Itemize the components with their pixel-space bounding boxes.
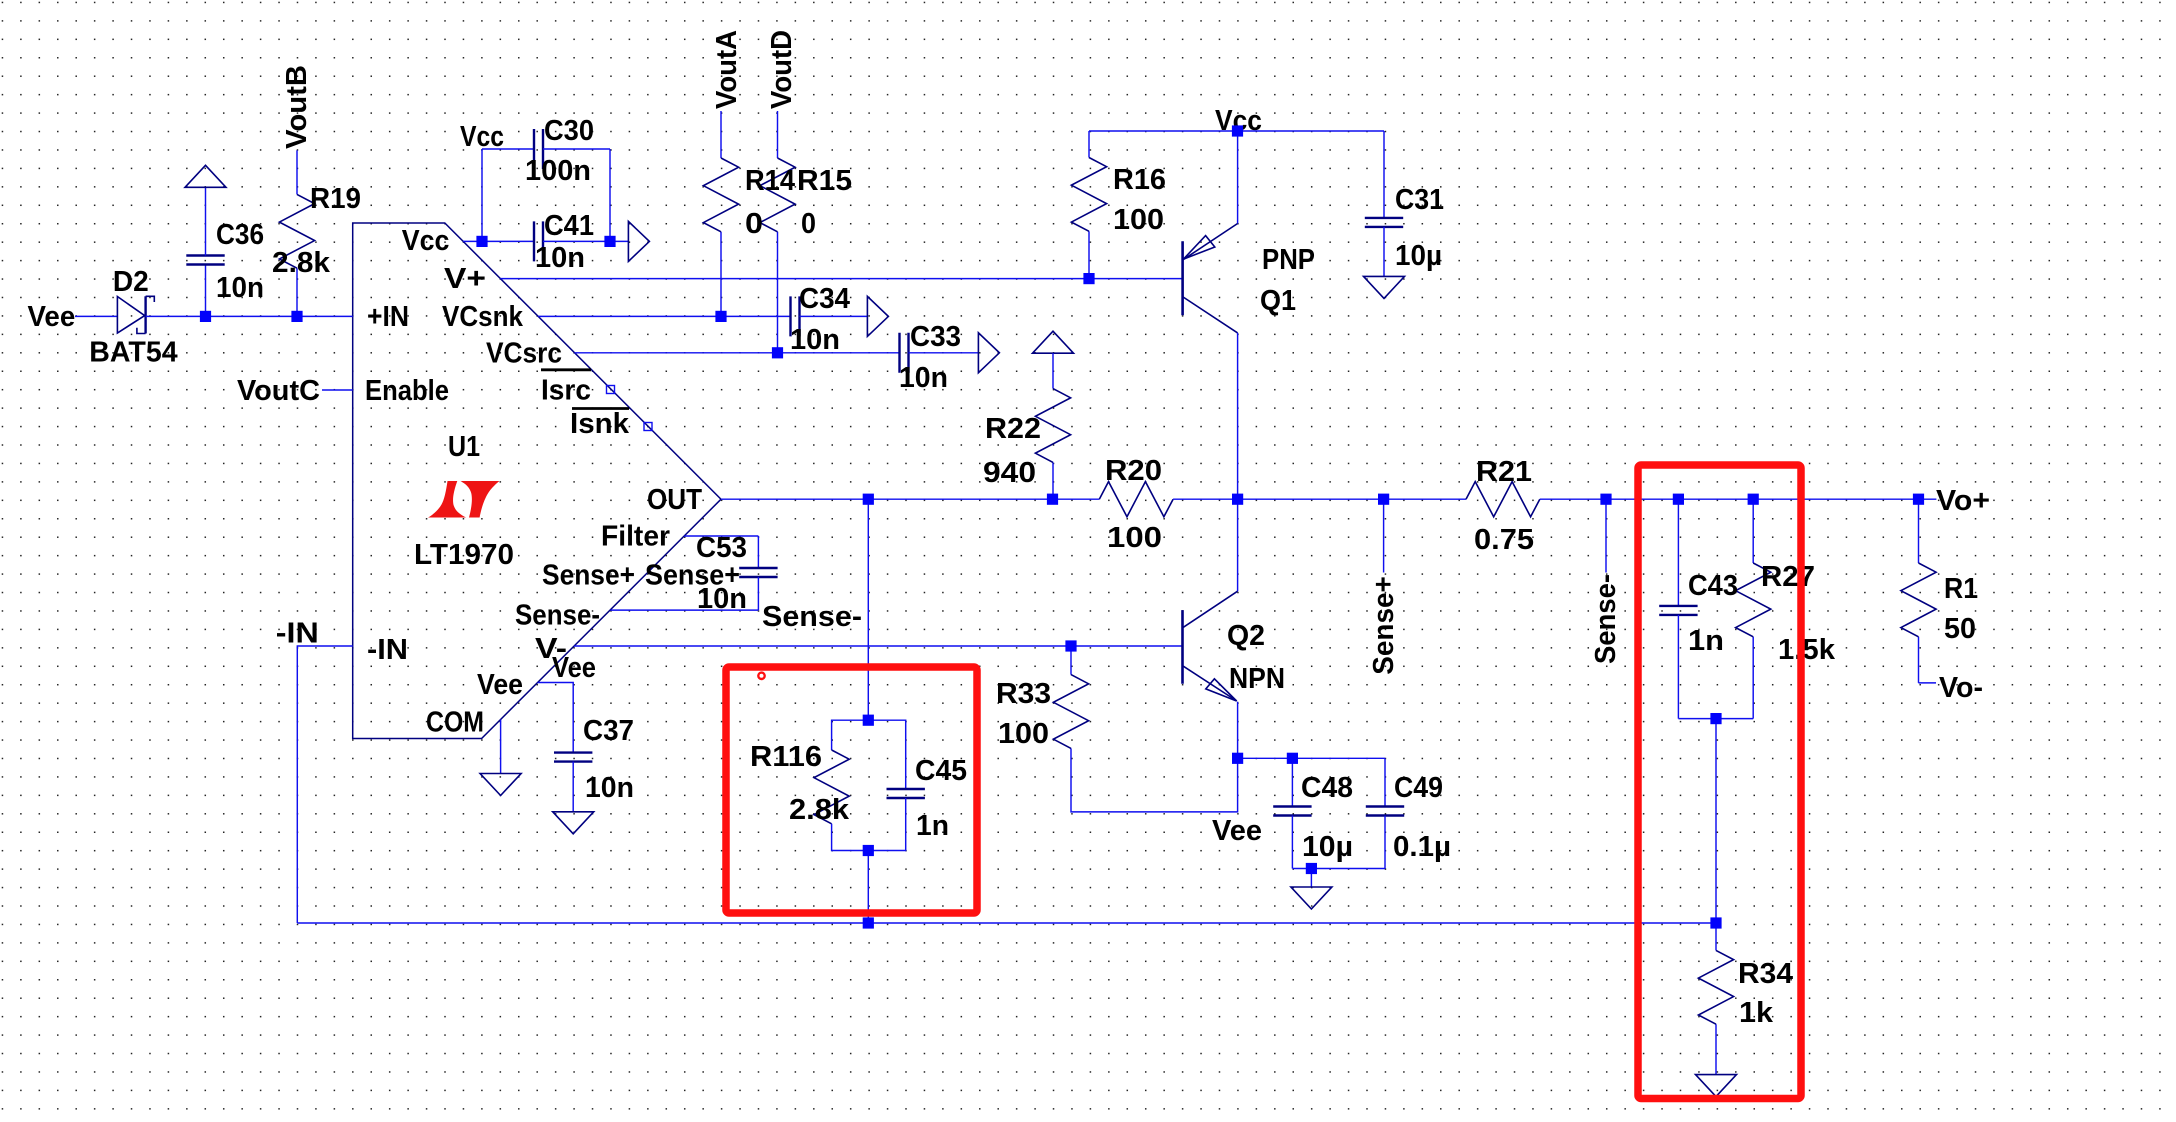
power arrow above R22 <box>1033 331 1074 353</box>
resistor R14 <box>703 158 738 232</box>
svg-text:Vee: Vee <box>1212 815 1262 847</box>
wire VoutC to Enable <box>322 389 353 391</box>
svg-text:Q1: Q1 <box>1260 285 1296 317</box>
output arrow after C33 <box>978 333 999 373</box>
svg-text:940: 940 <box>983 457 1036 489</box>
wire block to bottom rail <box>867 851 869 924</box>
svg-text:-IN: -IN <box>367 634 408 666</box>
wire arrow to R22 <box>1052 353 1054 388</box>
junction R14/VCsnk <box>715 311 726 322</box>
svg-text:R116: R116 <box>750 741 822 773</box>
wire OUT bus left <box>721 498 1099 500</box>
wire C49 bottom stem <box>1384 816 1386 869</box>
wire Q2 emitter down <box>1237 702 1239 759</box>
svg-text:LT1970: LT1970 <box>414 539 514 571</box>
power arrow above C36 <box>185 165 226 187</box>
resistor R34 <box>1698 950 1733 1024</box>
svg-text:C30: C30 <box>544 115 594 147</box>
svg-text:R27: R27 <box>1761 561 1815 593</box>
wire COM pin <box>500 720 502 774</box>
wire C31 top stem <box>1383 131 1385 218</box>
svg-text:R20: R20 <box>1105 455 1162 487</box>
svg-text:C49: C49 <box>1394 772 1443 804</box>
wire Sense+ takeoff <box>1383 499 1385 572</box>
pin Isnk unconnected square <box>644 423 652 431</box>
diode D2 BAT54 <box>117 297 144 334</box>
wire Vee pin to C37 <box>538 683 574 753</box>
svg-text:Vo+: Vo+ <box>1936 485 1990 517</box>
svg-text:10n: 10n <box>585 772 634 804</box>
svg-text:1k: 1k <box>1739 997 1774 1029</box>
svg-text:R1: R1 <box>1944 573 1978 605</box>
wire C41 to output arrow <box>543 240 628 242</box>
red marker dot <box>758 673 764 679</box>
svg-text:U1: U1 <box>448 431 480 463</box>
svg-text:R34: R34 <box>1738 958 1793 990</box>
wire Sense- pin row <box>610 609 758 611</box>
svg-text:R22: R22 <box>985 413 1041 445</box>
LT logo <box>428 481 466 518</box>
pin Isrc unconnected square <box>607 386 615 394</box>
svg-text:0.1µ: 0.1µ <box>1393 831 1451 863</box>
svg-text:100: 100 <box>1107 522 1162 554</box>
svg-text:Isnk: Isnk <box>570 408 630 440</box>
junction Sense+/OUT <box>1378 494 1389 505</box>
resistor R20 <box>1099 482 1173 517</box>
svg-text:VCsnk: VCsnk <box>442 301 524 333</box>
wire V- row to R33 <box>1070 646 1072 675</box>
output arrow after C41 <box>628 221 649 261</box>
wire R34 to ground <box>1715 1024 1717 1074</box>
svg-text:10µ: 10µ <box>1302 831 1353 863</box>
svg-text:Enable: Enable <box>365 375 449 407</box>
svg-text:+IN: +IN <box>367 301 409 333</box>
svg-text:2.8k: 2.8k <box>272 247 331 279</box>
wire R116 top lead <box>832 720 869 750</box>
wire R19 to +IN node <box>296 268 298 316</box>
red highlight box around R116/C45 <box>726 667 977 913</box>
junction R19/+IN <box>291 311 302 322</box>
wire C30 left lead <box>482 148 534 150</box>
svg-text:Vo-: Vo- <box>1939 672 1983 704</box>
junction C43-R27/R34 <box>1710 713 1721 724</box>
svg-text:0: 0 <box>801 208 816 240</box>
capacitor C53 <box>739 568 777 577</box>
ground below C48/C49 <box>1291 887 1332 909</box>
wire R116 bottom lead <box>832 824 869 851</box>
svg-text:Sense-: Sense- <box>515 600 600 632</box>
svg-text:C37: C37 <box>583 715 634 747</box>
svg-text:100: 100 <box>1113 204 1164 236</box>
capacitor C43 <box>1659 606 1697 615</box>
wire R14 to VCsnk <box>720 232 722 317</box>
wire Vcc rail to R16 <box>1088 131 1090 158</box>
wire C37 bottom stem <box>572 762 574 812</box>
wire OUT bus to R27 <box>1752 499 1754 563</box>
wire Sense- takeoff <box>1605 499 1607 572</box>
svg-text:R19: R19 <box>310 183 361 215</box>
wire C31 bottom stem <box>1383 227 1385 277</box>
wire C43/R27 bottom join <box>1678 718 1753 720</box>
svg-text:10n: 10n <box>790 324 840 356</box>
svg-text:COM: COM <box>426 707 484 739</box>
junction Q1-Q2/OUT <box>1232 494 1243 505</box>
wire rail to R34 <box>1715 923 1717 950</box>
svg-text:C48: C48 <box>1301 772 1353 804</box>
svg-text:VoutA: VoutA <box>711 30 743 109</box>
wire C34 to arrow <box>800 315 868 317</box>
wire Vcc pin to C41 <box>463 240 534 242</box>
ground below C31 <box>1364 276 1405 298</box>
resistor R22 <box>1035 389 1070 463</box>
svg-text:1.5k: 1.5k <box>1778 634 1836 666</box>
junction C36/+IN <box>200 311 211 322</box>
wire R1 to Vo- <box>1918 637 1920 683</box>
Isnk overline <box>572 407 629 410</box>
wire up to C30 left <box>481 149 483 241</box>
wire C43 top stem <box>1677 499 1679 606</box>
capacitor C34 <box>791 296 800 336</box>
resistor R16 <box>1071 158 1106 232</box>
wire Q2 emitter to C48/C49 <box>1238 757 1385 759</box>
junction C48 top <box>1287 753 1298 764</box>
resistor R19 <box>279 194 314 268</box>
svg-text:50: 50 <box>1944 613 1976 645</box>
capacitor C41 <box>534 221 543 261</box>
svg-text:0.75: 0.75 <box>1474 524 1534 556</box>
capacitor C48 <box>1273 807 1311 816</box>
wire C53 bottom stem <box>757 577 759 610</box>
svg-text:C45: C45 <box>915 755 967 787</box>
svg-text:VoutD: VoutD <box>766 30 798 109</box>
svg-text:C34: C34 <box>799 283 850 315</box>
resistor R33 <box>1053 675 1088 749</box>
junction Vcc/C30 <box>476 236 487 247</box>
wire V- row to Q2 base <box>574 645 1182 647</box>
capacitor C31 <box>1365 218 1403 227</box>
junction R16/V+ <box>1083 273 1094 284</box>
wire C36 bottom stem <box>205 265 207 317</box>
wire C48/C49 bottom join <box>1292 868 1385 870</box>
svg-text:Sense+: Sense+ <box>645 559 740 591</box>
svg-text:2.8k: 2.8k <box>789 794 850 826</box>
svg-text:0: 0 <box>745 208 763 240</box>
wire R15 to VCsrc <box>777 232 779 353</box>
wire Q1 collector / Q2 collector <box>1237 333 1239 591</box>
svg-text:10n: 10n <box>899 362 948 394</box>
wire R33 to Vee node <box>1071 748 1238 812</box>
svg-text:-IN: -IN <box>276 618 319 650</box>
wire VoutB to R19 <box>296 150 298 194</box>
svg-text:Vcc: Vcc <box>402 225 450 257</box>
junction OUT/R116 branch <box>863 494 874 505</box>
resistor R1 <box>1901 563 1936 637</box>
svg-text:100n: 100n <box>525 155 591 187</box>
wire to Vo- label <box>1919 682 1937 684</box>
wire VoutA to R14 <box>720 111 722 158</box>
svg-text:VCsrc: VCsrc <box>486 338 562 370</box>
junction R116/C45 bottom <box>863 845 874 856</box>
wire Q1 emitter to Vcc rail <box>1237 131 1239 224</box>
svg-text:C36: C36 <box>216 219 264 251</box>
svg-text:10µ: 10µ <box>1395 240 1442 272</box>
wire C48 top stem <box>1291 758 1293 806</box>
svg-text:NPN: NPN <box>1229 663 1285 695</box>
resistor R27 <box>1736 563 1771 637</box>
svg-text:10n: 10n <box>535 242 585 274</box>
svg-text:C43: C43 <box>1688 570 1738 602</box>
svg-text:1n: 1n <box>1688 625 1724 657</box>
svg-text:100: 100 <box>998 718 1049 750</box>
capacitor C36 <box>186 256 224 265</box>
junction R33/V- <box>1065 640 1076 651</box>
junction Q2 emitter <box>1232 753 1243 764</box>
svg-text:C33: C33 <box>910 321 961 353</box>
junction R27/OUT <box>1748 494 1759 505</box>
wire OUT bus right to Vo+ <box>1540 498 1937 500</box>
wire C30 right lead <box>543 148 610 150</box>
wire VCsnk row to C34 <box>538 315 790 317</box>
wire Vo+ to R1 <box>1918 499 1920 563</box>
wire Vcc rail <box>1089 130 1384 132</box>
wire C45 top lead <box>868 720 905 789</box>
wire R22 to OUT bus <box>1052 462 1054 499</box>
wire D2 cathode to +IN <box>146 315 353 317</box>
svg-text:VoutC: VoutC <box>237 375 320 407</box>
svg-text:R16: R16 <box>1113 164 1166 196</box>
capacitor C33 <box>900 333 909 373</box>
svg-text:OUT: OUT <box>647 484 702 516</box>
svg-text:R14: R14 <box>745 165 795 197</box>
svg-text:C41: C41 <box>544 210 594 242</box>
wire bottom feedback rail <box>297 922 1716 924</box>
junction bottom rail/R34 <box>1710 917 1721 928</box>
wire ground stem <box>1310 869 1312 888</box>
svg-text:Sense+: Sense+ <box>1368 576 1400 675</box>
svg-text:Filter: Filter <box>601 521 670 553</box>
svg-text:1n: 1n <box>916 810 949 842</box>
junction C41/C30 <box>604 236 615 247</box>
op-amp U1 LT1970 body <box>353 223 721 739</box>
svg-text:10n: 10n <box>216 272 264 304</box>
Isrc overline <box>541 368 591 371</box>
wire -IN down <box>297 646 352 923</box>
svg-text:R15: R15 <box>797 165 852 197</box>
junction bottom rail/R116 <box>863 917 874 928</box>
ground below COM <box>480 774 521 796</box>
svg-text:Q2: Q2 <box>1227 620 1265 652</box>
output arrow after C34 <box>867 296 888 336</box>
transistor Q2 NPN <box>1181 610 1184 684</box>
wire C45 bottom lead <box>868 798 905 851</box>
junction Sense-/OUT <box>1600 494 1611 505</box>
junction Vcc rail <box>1232 125 1243 136</box>
wire VoutD to R15 <box>777 111 779 158</box>
junction C43/OUT <box>1673 494 1684 505</box>
svg-text:C31: C31 <box>1395 184 1444 216</box>
svg-text:R21: R21 <box>1476 456 1532 488</box>
wire OUT bus middle <box>1173 498 1466 500</box>
wire C53 top stem <box>757 536 759 568</box>
svg-text:PNP: PNP <box>1262 244 1315 276</box>
capacitor C45 <box>887 789 925 798</box>
resistor R15 <box>760 158 795 232</box>
ground below C37 <box>553 812 594 834</box>
junction R15/VCsrc <box>772 347 783 358</box>
wire C30 right down <box>609 149 611 241</box>
svg-text:BAT54: BAT54 <box>89 336 177 368</box>
wire Vee label to D2 anode <box>75 315 117 317</box>
svg-text:Sense-: Sense- <box>762 601 862 633</box>
wire C49 top stem <box>1384 758 1386 806</box>
wire C43 bottom stem <box>1677 615 1679 719</box>
wire divider node down to rail <box>1715 719 1717 923</box>
transistor Q1 PNP <box>1181 241 1184 315</box>
svg-text:Isrc: Isrc <box>541 375 591 407</box>
svg-text:D2: D2 <box>113 266 149 298</box>
svg-text:Vee: Vee <box>477 669 523 701</box>
svg-text:Sense+: Sense+ <box>542 559 635 591</box>
wire C48 bottom stem <box>1291 816 1293 869</box>
red highlight box around C43/R27/R34 <box>1638 465 1801 1099</box>
svg-text:Vee: Vee <box>552 652 596 684</box>
svg-text:Vee: Vee <box>28 301 76 333</box>
wire C36 top stem <box>205 187 207 255</box>
junction R22/OUT <box>1047 494 1058 505</box>
wire V+ row to Q1 base <box>500 278 1182 280</box>
svg-text:Vcc: Vcc <box>460 121 504 153</box>
svg-text:Sense-: Sense- <box>1590 574 1622 664</box>
capacitor C30 <box>534 129 543 169</box>
svg-text:R33: R33 <box>996 678 1051 710</box>
wire VCsrc row to C33 <box>575 352 900 354</box>
junction R116/C45 top <box>863 715 874 726</box>
wire C33 to arrow <box>909 352 979 354</box>
ground below R34 <box>1696 1075 1737 1097</box>
svg-text:VoutB: VoutB <box>281 65 313 149</box>
capacitor C37 <box>554 753 592 762</box>
resistor R21 <box>1466 482 1540 517</box>
wire R16 to V+ row <box>1088 231 1090 278</box>
svg-text:V+: V+ <box>444 263 486 295</box>
wire Filter pin <box>684 535 758 537</box>
junction R1/Vo+ <box>1913 494 1924 505</box>
wire R27 down <box>1752 637 1754 719</box>
capacitor C49 <box>1366 807 1404 816</box>
junction ground C48/C49 <box>1306 863 1317 874</box>
wire OUT down to R116/C45 <box>867 499 869 720</box>
resistor R116 <box>814 750 849 824</box>
